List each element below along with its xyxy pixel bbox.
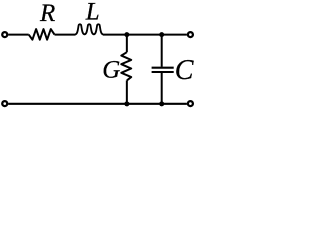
svg-text:C: C [175, 55, 194, 86]
svg-text:R: R [39, 0, 55, 27]
svg-text:G: G [102, 57, 120, 84]
svg-text:L: L [85, 0, 100, 26]
